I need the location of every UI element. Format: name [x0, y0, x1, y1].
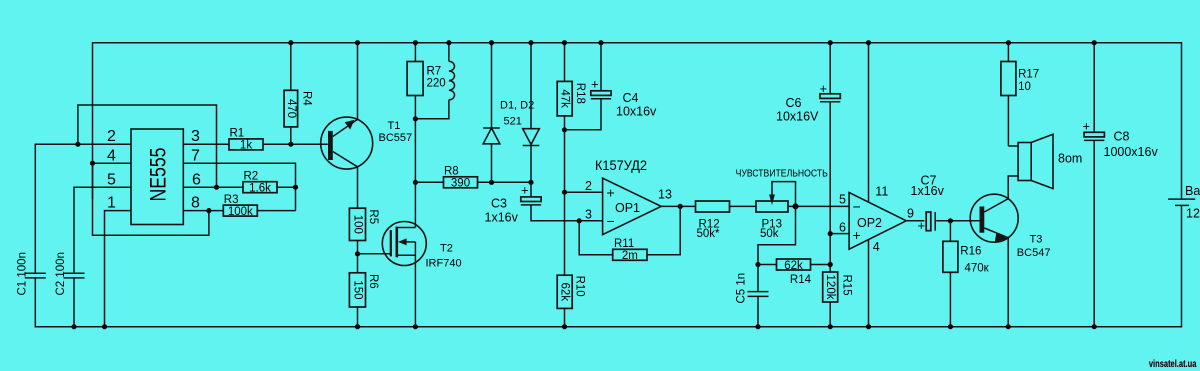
svg-text:R10: R10 — [574, 276, 586, 297]
inductor L1 search coil — [415, 40, 454, 119]
svg-text:3: 3 — [191, 128, 200, 145]
svg-text:4: 4 — [873, 240, 880, 254]
capacitor C7 1x16v — [911, 174, 945, 234]
wire gate — [358, 253, 391, 255]
resistor R2 1.6k — [243, 171, 277, 195]
svg-text:IRF740: IRF740 — [426, 257, 462, 269]
capacitor C3 1x16v — [485, 183, 542, 225]
svg-text:+: + — [521, 183, 529, 198]
svg-text:R18: R18 — [574, 83, 586, 104]
node OP1 output — [678, 204, 683, 209]
resistor R8 390 — [444, 166, 478, 190]
node R1/R4 — [288, 142, 293, 147]
svg-text:1x16v: 1x16v — [485, 211, 519, 225]
node drain/R8 — [413, 180, 418, 185]
resistor R12 50k* — [696, 201, 730, 240]
svg-text:100: 100 — [352, 215, 364, 234]
svg-text:220: 220 — [427, 78, 446, 90]
svg-text:R6: R6 — [367, 274, 379, 289]
svg-text:1k: 1k — [240, 140, 252, 152]
resistor R11 2m — [613, 238, 647, 262]
wire pin2 row to C1 — [35, 144, 131, 273]
svg-text:2: 2 — [585, 179, 592, 193]
svg-text:1x16v: 1x16v — [911, 184, 945, 198]
svg-text:5: 5 — [839, 193, 846, 207]
wire T3 emitter to ground — [1007, 238, 1009, 327]
svg-text:10x16V: 10x16V — [776, 110, 819, 124]
wire OP2 output — [906, 220, 924, 222]
svg-text:ЧУВСТВИТЕЛЬНОСТЬ: ЧУВСТВИТЕЛЬНОСТЬ — [736, 169, 829, 180]
svg-text:13: 13 — [658, 187, 672, 201]
svg-text:−: − — [853, 199, 861, 215]
potentiometer P13 50k — [756, 182, 796, 241]
node pin4 junction — [90, 161, 95, 166]
svg-text:−: − — [607, 213, 615, 229]
wire T3 collector to speaker — [1008, 176, 1018, 199]
resistor R3 100k — [223, 194, 257, 218]
svg-text:R2: R2 — [244, 171, 259, 183]
node base/R16 — [948, 218, 953, 223]
svg-text:100k: 100k — [228, 206, 253, 218]
diode D2 — [523, 40, 540, 197]
svg-text:R5: R5 — [367, 209, 379, 224]
node pin2 junction — [75, 142, 80, 147]
svg-text:C2 100n: C2 100n — [55, 252, 67, 295]
wire R11 to output — [647, 206, 680, 254]
resistor R16 470к — [943, 221, 990, 330]
wire P13 to OP2 pin5 — [788, 205, 849, 207]
svg-text:R3: R3 — [224, 194, 239, 206]
resistor R14 62k — [777, 259, 812, 286]
capacitor C4 10x16v — [565, 40, 658, 130]
svg-text:1.6k: 1.6k — [249, 182, 271, 194]
transistor Q1 T1 BC557 — [321, 40, 412, 169]
wire pin3 row — [183, 143, 229, 145]
resistor R6 150 — [349, 273, 379, 330]
resistor R5 100 — [349, 208, 379, 240]
node pin6 junction — [214, 185, 219, 190]
wire C7 to T3 base — [936, 220, 979, 222]
svg-text:62k: 62k — [559, 283, 571, 302]
node pin1 ground — [102, 324, 107, 329]
svg-text:vinsatel.at.ua: vinsatel.at.ua — [1149, 359, 1197, 370]
node D2/C3 — [528, 180, 533, 185]
svg-text:D1, D2: D1, D2 — [500, 100, 534, 112]
node R2 right — [293, 185, 298, 190]
wire OP2 pin4 ground — [868, 240, 870, 327]
svg-text:R16: R16 — [960, 245, 981, 257]
svg-text:1: 1 — [107, 195, 116, 212]
wire OP1 pin2 row — [565, 191, 603, 193]
battery Bat 12v — [1168, 184, 1200, 221]
svg-text:8om: 8om — [1058, 152, 1082, 166]
wire C6 down to pin6/R14 nodes — [829, 102, 831, 272]
svg-text:9: 9 — [907, 207, 914, 221]
wire T2 drain up — [414, 96, 416, 228]
diode D1 — [483, 40, 500, 182]
svg-text:50k: 50k — [760, 228, 779, 240]
svg-text:R7: R7 — [427, 66, 442, 78]
wire R3 to pin7 column — [257, 210, 295, 212]
svg-text:2m: 2m — [622, 250, 638, 262]
resistor R4 470 — [284, 40, 312, 144]
svg-text:NE555: NE555 — [146, 148, 171, 202]
svg-text:8: 8 — [191, 195, 200, 212]
capacitor C8 1000x16v — [1083, 40, 1159, 329]
svg-text:T2: T2 — [440, 243, 453, 255]
svg-text:R14: R14 — [790, 274, 812, 286]
svg-text:470: 470 — [285, 99, 297, 118]
transistor Q3 T3 BC547 — [970, 194, 1050, 259]
wire R10 column — [564, 192, 566, 275]
svg-text:2: 2 — [107, 128, 116, 145]
wire pin2-pin6 link — [78, 105, 217, 187]
svg-text:Bat: Bat — [1185, 184, 1200, 198]
svg-text:R17: R17 — [1018, 69, 1039, 81]
svg-text:390: 390 — [451, 178, 470, 190]
node C5/R14 — [755, 262, 760, 267]
wire pin4 vertical to pin8 path — [93, 163, 209, 235]
svg-text:11: 11 — [875, 184, 888, 198]
wire pin5 row to C2 — [74, 187, 131, 273]
svg-text:T3: T3 — [1030, 233, 1043, 245]
wire R2 to pin7 column — [277, 186, 296, 188]
op-amp U3 OP2 — [839, 184, 914, 254]
svg-text:+: + — [820, 81, 828, 96]
speaker 8om — [1008, 134, 1082, 188]
resistor R7 220 — [407, 40, 446, 95]
wire R14 row — [758, 264, 777, 266]
svg-text:+: + — [918, 218, 926, 233]
transistor Q2 T2 IRF740 — [382, 222, 461, 330]
svg-text:BC547: BC547 — [1017, 247, 1051, 259]
svg-text:10: 10 — [1018, 81, 1031, 93]
svg-text:R1: R1 — [230, 128, 245, 140]
wire R8 row — [415, 181, 443, 183]
node drain/coil — [413, 116, 418, 121]
node T2 gate junction — [355, 251, 360, 256]
svg-text:R15: R15 — [841, 275, 853, 296]
svg-text:OP2: OP2 — [857, 216, 882, 230]
node P13 output — [793, 203, 799, 209]
capacitor C6 10x16V — [776, 40, 840, 123]
node D1 bottom — [489, 180, 494, 185]
wire OP1 output — [661, 205, 695, 207]
svg-text:C5 1n: C5 1n — [736, 273, 748, 304]
svg-text:C1 100n: C1 100n — [17, 252, 29, 295]
svg-text:К157УД2: К157УД2 — [595, 158, 647, 173]
resistor R1 1k — [229, 128, 263, 152]
svg-text:120k: 120k — [824, 275, 836, 300]
node pin8 junction — [206, 208, 211, 213]
wire pin7 row — [183, 163, 295, 210]
svg-text:6: 6 — [192, 171, 201, 188]
svg-text:C8: C8 — [1114, 130, 1130, 144]
IC U1 NE555 — [131, 129, 183, 225]
wire OP2 pin11 supply — [868, 43, 870, 203]
svg-text:470к: 470к — [965, 263, 990, 275]
wire P13 node down to C5/R14 node — [758, 206, 796, 264]
wire top supply bus — [93, 43, 1182, 199]
svg-text:150: 150 — [352, 280, 364, 299]
svg-text:OP1: OP1 — [615, 201, 640, 215]
svg-text:50k*: 50k* — [697, 228, 721, 240]
svg-text:C6: C6 — [786, 96, 802, 110]
svg-text:BC557: BC557 — [379, 132, 413, 144]
svg-text:62k: 62k — [784, 260, 803, 272]
svg-text:6: 6 — [839, 221, 846, 235]
wire pin4 row — [93, 162, 132, 164]
svg-text:7: 7 — [191, 147, 200, 164]
svg-text:R4: R4 — [301, 91, 313, 106]
node pin2/R10 — [562, 190, 567, 195]
capacitor C5 1n — [736, 265, 769, 330]
svg-text:T1: T1 — [388, 120, 401, 132]
wire pin6 row — [183, 186, 243, 188]
svg-text:47k: 47k — [559, 89, 571, 108]
wire R8 to C3 node — [478, 181, 532, 183]
wire R14 to R15 node — [811, 264, 831, 266]
capacitor C1 100n — [17, 252, 46, 295]
node R11 tap — [577, 218, 582, 223]
wire bottom ground bus — [35, 206, 1181, 327]
op-amp U2 OP1 K157UD2 — [585, 178, 672, 235]
node R14/R15 — [828, 262, 833, 267]
resistor R15 120k — [823, 272, 853, 329]
svg-text:521: 521 — [504, 116, 522, 128]
svg-text:C4: C4 — [623, 91, 639, 105]
svg-text:5: 5 — [107, 171, 116, 188]
wire feedback R11 — [579, 221, 613, 255]
wire pin8 row — [183, 210, 223, 212]
svg-text:3: 3 — [585, 208, 592, 222]
wire R12 to P13 — [730, 205, 757, 207]
svg-text:R8: R8 — [444, 166, 459, 178]
wire OP2 pin6 row — [830, 233, 849, 235]
svg-text:12v: 12v — [1186, 207, 1200, 221]
svg-text:+: + — [1083, 119, 1091, 134]
wire T1 collector to R5 — [357, 167, 359, 208]
wire R1 to T1 base — [263, 143, 328, 145]
svg-text:+: + — [607, 184, 615, 200]
svg-text:R11: R11 — [614, 238, 634, 250]
svg-text:4: 4 — [107, 147, 116, 164]
svg-text:+: + — [591, 77, 599, 92]
capacitor C2 100n — [55, 252, 84, 329]
svg-text:1000x16v: 1000x16v — [1104, 145, 1159, 159]
wire pin1 row to ground — [105, 211, 132, 327]
node pin6 — [828, 231, 833, 236]
resistor R18 47k — [557, 40, 586, 192]
wire C3 to OP1 pin3 — [531, 205, 603, 221]
svg-text:10x16v: 10x16v — [616, 105, 657, 119]
resistor R10 62k — [557, 275, 585, 329]
wire R5 to R6 — [357, 241, 359, 273]
svg-text:C3: C3 — [491, 197, 507, 211]
resistor R17 10 — [1001, 40, 1039, 146]
